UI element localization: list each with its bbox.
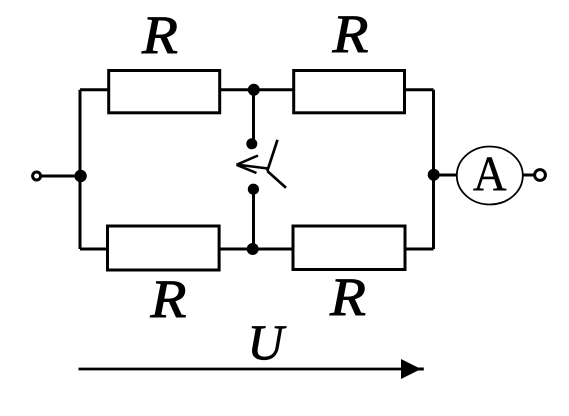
svg-text:R: R: [141, 6, 178, 65]
svg-text:A: A: [473, 147, 507, 202]
svg-text:R: R: [329, 268, 366, 327]
svg-text:R: R: [331, 5, 368, 64]
svg-text:U: U: [248, 314, 287, 370]
svg-text:R: R: [149, 270, 186, 329]
